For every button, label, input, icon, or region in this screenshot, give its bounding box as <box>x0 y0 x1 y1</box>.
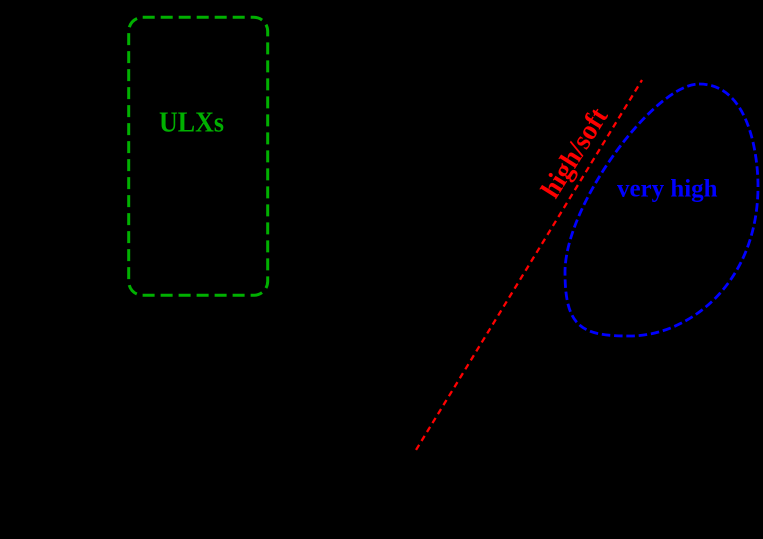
svg-text:ULXs: ULXs <box>159 108 224 139</box>
high/soft boundary line <box>416 80 642 450</box>
very high region (egg-shaped dashed loop) <box>565 84 758 336</box>
svg-text:very high: very high <box>617 176 718 203</box>
ULXs region box <box>129 17 268 295</box>
